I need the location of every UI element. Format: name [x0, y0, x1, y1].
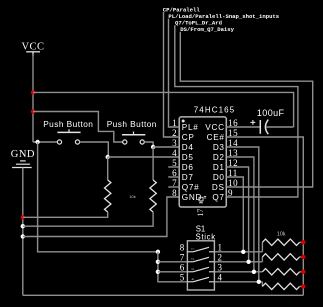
svg-text:DS/From_Q7_Daisy: DS/From_Q7_Daisy	[180, 26, 234, 33]
svg-text:17: 17	[196, 209, 205, 217]
junction R4/common	[301, 255, 305, 259]
junction node D5	[106, 155, 110, 159]
svg-text:VCC: VCC	[205, 123, 224, 132]
wire VCC to push button SW1	[33, 141, 57, 143]
svg-text:6: 6	[180, 262, 185, 272]
resistor R3 10k	[262, 239, 299, 245]
wire IC pin 11 D0 to stick row 1	[226, 177, 243, 252]
svg-text:VCC: VCC	[21, 42, 44, 53]
switch S1 blades	[187, 251, 193, 253]
wire S1 pin 6	[158, 271, 188, 273]
svg-text:1: 1	[191, 248, 195, 250]
svg-text:D4: D4	[182, 143, 194, 152]
wire S1 pin 2 row	[214, 261, 262, 263]
wire DS label to IC pin 10	[180, 32, 312, 187]
wire VCC feed down to S1 common	[38, 142, 158, 252]
wire S1 pin 4 row	[214, 281, 262, 283]
wire PL label to IC pin 1	[169, 19, 180, 127]
wire S1 pin 7	[158, 261, 188, 263]
wire VCC feed to push button SW2	[33, 112, 123, 143]
ground symbol	[20, 160, 26, 162]
wire IC pin 13 D2 to stick row 3	[226, 157, 254, 272]
wire IC pin 15 CE# to resistor common	[226, 137, 303, 295]
wire capacitor to VCC rail	[266, 126, 293, 128]
IC U1 unconnected stubs pins 5,6,7	[168, 166, 179, 168]
svg-text:D2: D2	[213, 153, 225, 162]
junction VCC rail upper	[31, 90, 35, 94]
resistor R2 10k	[150, 180, 156, 212]
svg-text:DS: DS	[212, 183, 225, 192]
svg-text:Q7#: Q7#	[182, 183, 200, 192]
wire R6 to common	[300, 285, 304, 287]
switch S1 body	[187, 241, 214, 290]
wire IC pin 12 D1 to stick row 2	[226, 167, 248, 262]
wire R5 to common	[300, 271, 304, 273]
push button SW2	[122, 134, 145, 136]
svg-text:D3: D3	[213, 143, 225, 152]
junction row4/D3	[257, 280, 261, 284]
svg-text:74HC165: 74HC165	[194, 106, 236, 115]
IC U1 GND pin decoration	[199, 197, 203, 201]
wire VCC horizontal rail to cap	[33, 92, 294, 127]
junction node D4	[151, 145, 155, 149]
wire node D5 to IC pin 4	[108, 156, 180, 158]
wire GND bottom run	[23, 294, 304, 296]
wire S1 pin 3 row	[214, 271, 262, 273]
svg-text:3: 3	[191, 268, 195, 270]
svg-text:Q7: Q7	[212, 193, 224, 202]
svg-text:D0: D0	[213, 173, 225, 182]
wire IC pin 14 D3 to stick row 4	[226, 147, 258, 282]
svg-text:8: 8	[172, 188, 177, 198]
svg-text:CE#: CE#	[207, 133, 225, 142]
svg-text:7: 7	[180, 252, 185, 262]
svg-text:4: 4	[191, 278, 195, 280]
wire IC pin 16 to capacitor	[226, 126, 260, 128]
wire Q7 label to IC pin 9	[175, 25, 298, 197]
svg-text:100uF: 100uF	[257, 108, 285, 118]
junction VCC rail lower	[31, 109, 35, 113]
junction R6/common	[301, 284, 305, 288]
svg-text:10k: 10k	[129, 194, 135, 199]
resistor R6 10k	[262, 283, 299, 289]
svg-text:4: 4	[172, 148, 177, 158]
junction GND/R1	[21, 215, 25, 219]
junction S1 common row 3	[156, 270, 160, 274]
svg-text:D5: D5	[182, 153, 194, 162]
wire CP label to IC pin 2	[164, 12, 180, 137]
wire row4 to R6	[261, 282, 263, 287]
junction S1 common row 2	[156, 260, 160, 264]
wire node D5 down to R1	[107, 157, 109, 180]
wire VCC vertical rail	[32, 54, 34, 142]
wire GND vertical rail	[22, 168, 24, 296]
wire R3 to common	[300, 241, 304, 243]
svg-text:Stick: Stick	[195, 232, 215, 241]
svg-text:Push Button: Push Button	[107, 119, 157, 129]
svg-text:D1: D1	[213, 163, 225, 172]
junction row2/D1	[246, 260, 250, 264]
junction R5/common	[301, 270, 305, 274]
wire SW2 to node D4	[144, 142, 153, 147]
svg-text:D7: D7	[182, 173, 194, 182]
wire node D4 down to R2	[152, 147, 154, 180]
wire node D4 to IC pin 3	[153, 146, 179, 148]
wire row2 to R4	[261, 257, 263, 262]
svg-text:8: 8	[180, 242, 185, 252]
wire GND to IC pin 8	[23, 197, 179, 237]
wire S1 common vertical	[158, 252, 188, 282]
svg-text:2: 2	[191, 258, 195, 260]
wire SW1 to node D5	[80, 142, 109, 157]
wire R1 to GND	[23, 212, 108, 217]
push button SW1	[57, 131, 80, 133]
junction GND/IC-gnd	[21, 234, 25, 238]
junction R3/common	[301, 240, 305, 244]
svg-text:Push Button: Push Button	[43, 119, 93, 129]
junction row3/D2	[252, 270, 256, 274]
wire S1 pin 1 row	[214, 251, 262, 253]
IC U1 74HC165 body	[179, 117, 226, 207]
resistor R4 10k	[262, 254, 299, 260]
svg-text:10k: 10k	[277, 231, 286, 237]
svg-text:5: 5	[180, 272, 185, 282]
svg-text:PL#: PL#	[182, 123, 199, 132]
junction VCC/SW1/stick feed	[35, 140, 39, 144]
resistor R1 10k	[104, 180, 110, 212]
wire R2 to GND	[23, 212, 153, 226]
svg-text:D6: D6	[182, 163, 194, 172]
junction S1 common row 1	[156, 250, 160, 254]
svg-text:1: 1	[218, 242, 223, 252]
capacitor C1 plus sign	[251, 121, 256, 123]
svg-text:CP: CP	[182, 133, 195, 142]
wire row1 to R3	[261, 242, 263, 252]
junction GND/R2	[21, 224, 25, 228]
svg-text:GND: GND	[11, 149, 35, 160]
svg-text:4: 4	[218, 272, 223, 282]
resistor R5 10k	[262, 269, 299, 275]
capacitor C1	[259, 120, 261, 134]
junction row1/D0	[241, 250, 245, 254]
svg-text:3: 3	[172, 138, 177, 148]
svg-text:3: 3	[218, 262, 223, 272]
wire R4 to common	[300, 256, 304, 258]
svg-text:2: 2	[218, 252, 223, 262]
